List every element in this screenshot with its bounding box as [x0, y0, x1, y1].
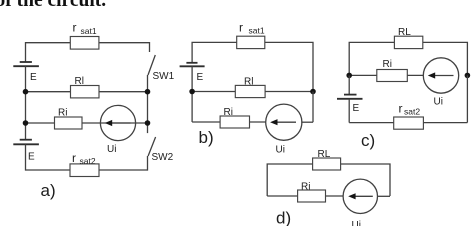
- current source Ui (a): [100, 105, 135, 140]
- svg-text:SW2: SW2: [152, 152, 174, 163]
- battery E upper (a): [20, 61, 32, 63]
- resistor Ri (d): [298, 190, 326, 202]
- battery E (c): [348, 75, 350, 94]
- svg-text:E: E: [28, 152, 35, 163]
- wire: a right vertical between SW1 and SW2: [147, 75, 149, 133]
- resistor r_sat1 (b): [237, 36, 265, 48]
- wire: d bottom right: [378, 195, 391, 197]
- wire: b left vertical: [191, 66, 193, 122]
- resistor RL (d): [313, 158, 341, 170]
- wire: a right lower vertical: [147, 156, 149, 171]
- wire: b top wire: [192, 42, 313, 91]
- switch SW1: [148, 55, 155, 75]
- switch SW2: [148, 137, 156, 156]
- svg-text:a): a): [41, 181, 56, 200]
- node: b right junction: [310, 89, 316, 95]
- svg-text:b): b): [199, 128, 214, 147]
- resistor Ri (a): [55, 117, 83, 129]
- svg-text:d): d): [276, 209, 291, 227]
- svg-text:Ri: Ri: [301, 182, 310, 193]
- svg-text:c): c): [361, 131, 375, 150]
- current source Ui (c): [423, 58, 458, 93]
- svg-text:Ri: Ri: [224, 107, 233, 118]
- resistor RL (c): [394, 36, 422, 48]
- svg-text:Rl: Rl: [244, 77, 253, 88]
- wire: a Rl branch: [26, 91, 148, 93]
- wire: d top wire: [267, 164, 390, 196]
- svg-text:Ri: Ri: [58, 108, 67, 119]
- node: b left junction: [189, 89, 195, 95]
- svg-text:sat2: sat2: [404, 107, 420, 117]
- resistor r_sat2 (a): [70, 164, 99, 177]
- svg-text:r: r: [239, 20, 243, 34]
- svg-text:r: r: [399, 102, 403, 116]
- svg-text:E: E: [197, 72, 204, 83]
- svg-text:sat1: sat1: [249, 26, 265, 36]
- node: a right Rl junction: [145, 89, 151, 95]
- resistor Rl (b): [235, 85, 265, 97]
- wire: b bottom branch: [192, 121, 265, 123]
- svg-text:E: E: [353, 103, 360, 114]
- wire: a left lower vertical: [25, 144, 27, 170]
- wire: b right vertical: [312, 92, 314, 123]
- resistor Ri (b): [220, 116, 249, 128]
- node: c right junction: [465, 73, 471, 79]
- svg-text:of the circuit.: of the circuit.: [0, 0, 106, 11]
- wire: a Ri branch: [26, 122, 148, 124]
- svg-text:E: E: [30, 72, 37, 83]
- current source Ui (b): [266, 104, 302, 140]
- wire: a bottom wire: [26, 169, 148, 171]
- svg-text:Ri: Ri: [383, 59, 392, 70]
- resistor r_sat2 (c): [394, 117, 424, 129]
- node: a right Ri junction: [145, 120, 151, 126]
- battery E lower (a): [20, 139, 32, 141]
- wire: c middle branch: [349, 74, 423, 76]
- svg-text:SW1: SW1: [153, 71, 175, 82]
- node: a left Ri junction: [23, 120, 29, 126]
- wire: a top wire: [26, 43, 150, 62]
- svg-text:sat2: sat2: [80, 156, 96, 166]
- svg-text:Rl: Rl: [75, 76, 84, 87]
- svg-text:Ui: Ui: [434, 97, 443, 108]
- svg-text:Ui: Ui: [352, 220, 361, 226]
- node: c left junction: [346, 73, 352, 79]
- svg-text:RL: RL: [318, 149, 331, 160]
- wire: c bottom wire: [349, 122, 467, 124]
- wire: a left vertical: [25, 66, 27, 140]
- wire: d bottom branch: [267, 195, 343, 197]
- svg-text:Ui: Ui: [276, 145, 285, 156]
- resistor Ri (c): [377, 70, 408, 82]
- wire: c top wire: [349, 42, 467, 75]
- svg-text:r: r: [73, 21, 77, 35]
- resistor r_sat1 (a): [70, 37, 99, 50]
- wire: c left lower vertical: [348, 99, 350, 123]
- battery E (b): [186, 62, 197, 64]
- svg-text:r: r: [72, 151, 76, 165]
- svg-text:sat1: sat1: [81, 26, 97, 36]
- svg-text:RL: RL: [398, 27, 411, 38]
- svg-text:Ui: Ui: [107, 144, 116, 155]
- wire: b bottom right: [301, 121, 313, 123]
- resistor Rl (a): [71, 86, 100, 98]
- wire: b Rl branch: [192, 91, 313, 93]
- wire: c right lower vertical: [466, 75, 468, 122]
- node: a left Rl junction: [23, 89, 29, 95]
- current source Ui (d): [343, 179, 377, 213]
